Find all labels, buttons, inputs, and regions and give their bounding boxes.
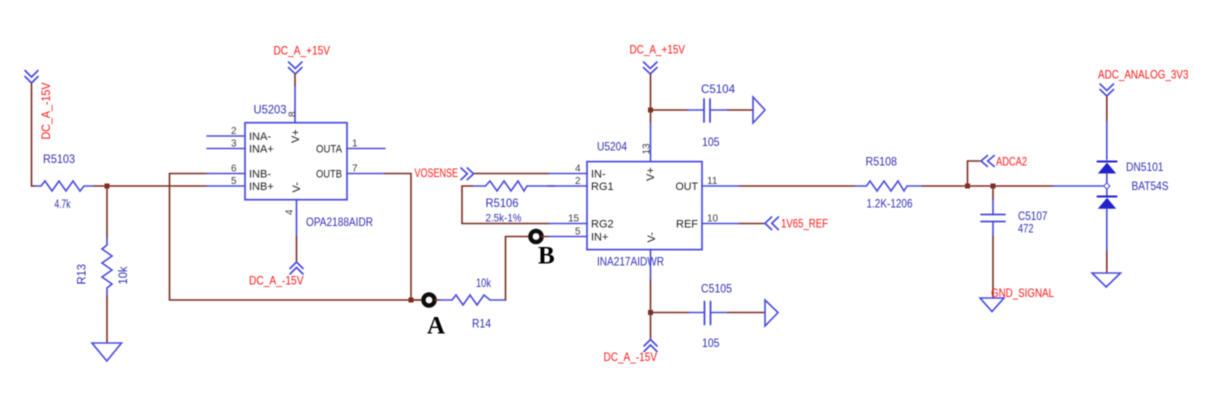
svg-text:INB-: INB- <box>249 169 271 181</box>
svg-text:5: 5 <box>231 176 237 187</box>
svg-text:472: 472 <box>1018 224 1034 236</box>
svg-text:V-: V- <box>291 182 303 193</box>
wire R14 up to node B <box>506 237 531 301</box>
svg-text:U5204: U5204 <box>597 142 628 154</box>
resistor R5103 <box>35 154 94 211</box>
power port DC_A_-15V below U5204 <box>604 340 658 365</box>
power port ADC_ANALOG_3V3 <box>1098 68 1189 97</box>
svg-text:4.7k: 4.7k <box>55 199 71 211</box>
wire C5105 to ground <box>728 312 765 314</box>
svg-text:4: 4 <box>285 209 296 215</box>
svg-text:V-: V- <box>646 232 658 243</box>
svg-text:3: 3 <box>231 139 237 150</box>
svg-text:ADC_ANALOG_3V3: ADC_ANALOG_3V3 <box>1098 68 1189 82</box>
svg-text:B: B <box>538 243 555 270</box>
svg-text:IN+: IN+ <box>591 232 608 244</box>
svg-text:REF: REF <box>676 219 698 231</box>
svg-text:INB+: INB+ <box>249 181 274 193</box>
resistor R14 <box>436 278 506 331</box>
pin 10 lead REF <box>702 223 740 225</box>
svg-text:DN5101: DN5101 <box>1126 162 1164 174</box>
svg-text:ADCA2: ADCA2 <box>996 155 1027 169</box>
wire bottom diode to ground <box>1106 209 1108 252</box>
svg-text:RG2: RG2 <box>591 219 614 231</box>
wire pin14 down to junction and -15V <box>650 280 652 339</box>
power port DC_A_+15V above U5203 <box>274 44 331 75</box>
svg-text:V+: V+ <box>290 129 302 143</box>
svg-text:RG1: RG1 <box>591 181 614 193</box>
svg-text:R5108: R5108 <box>866 157 898 169</box>
svg-text:OUTB: OUTB <box>316 169 342 181</box>
svg-text:7: 7 <box>352 164 358 175</box>
svg-text:R14: R14 <box>472 319 492 331</box>
svg-text:2: 2 <box>575 176 581 187</box>
svg-text:V+: V+ <box>645 167 657 181</box>
svg-text:10: 10 <box>707 214 719 225</box>
diode DN5101 bottom (cathode up) <box>1098 181 1169 209</box>
ground (rotated) right of C5104 <box>753 97 765 123</box>
wire +15V down to junction and pin 13 <box>650 74 652 122</box>
pin 5 lead INB+ <box>207 185 245 187</box>
wire R5108 to diode node <box>923 185 1054 187</box>
svg-text:1: 1 <box>352 139 358 150</box>
wire C5104 to ground <box>728 109 753 111</box>
pin 2 lead RG1 <box>549 185 587 187</box>
wire junction down to R13 <box>106 186 108 238</box>
node A (connector ring) <box>423 294 445 339</box>
svg-text:U5203: U5203 <box>254 105 287 117</box>
svg-text:R5103: R5103 <box>43 154 75 166</box>
junction at feedback / node A row <box>409 298 414 303</box>
pin 4 lead IN- <box>549 173 587 175</box>
node diamond on diode column <box>1104 183 1110 189</box>
node B (connector ring) <box>530 231 554 270</box>
ground under R13 <box>92 343 122 361</box>
svg-text:1.2K-1206: 1.2K-1206 <box>867 199 913 211</box>
wire from -15V port down to R5103 <box>32 83 36 186</box>
svg-text:11: 11 <box>707 176 718 187</box>
svg-text:DC_A_+15V: DC_A_+15V <box>274 44 331 58</box>
wire junction to C5105 <box>651 312 690 314</box>
ground under DN5101 <box>1092 273 1121 287</box>
instrumentation amp U5204 <box>549 122 740 280</box>
svg-text:R5106: R5106 <box>486 198 519 210</box>
wire REF to 1V65_REF port <box>740 223 765 225</box>
svg-text:5: 5 <box>575 227 581 238</box>
port VOSENSE <box>415 166 474 180</box>
wire pin4 down to -15V port <box>296 237 298 261</box>
svg-text:10k: 10k <box>476 278 491 290</box>
pin 1 stub OUTA <box>347 148 385 150</box>
wire junction to C5104 <box>651 109 689 111</box>
svg-text:INA+: INA+ <box>249 144 274 156</box>
junction at ADCA2 tap <box>965 184 970 189</box>
svg-text:DC_A_-15V: DC_A_-15V <box>604 350 658 364</box>
wire INB- loop : pin6 left, down and right to node A <box>170 174 422 301</box>
wire 3V3 down to diode D1 <box>1106 96 1108 122</box>
pin 2 stub INA- <box>207 135 245 137</box>
junction at C5107 tap <box>991 184 996 189</box>
wire junction down to C5107 <box>992 186 994 200</box>
junction at C5104 tap <box>648 108 653 113</box>
wire R13 to ground <box>106 296 108 343</box>
capacitor C5104 <box>688 84 736 149</box>
ground (rotated) right of C5105 <box>765 300 778 326</box>
pin 13 lead V+ (top) <box>650 122 652 162</box>
pin 14 lead V- (bottom) <box>650 250 652 280</box>
svg-text:6: 6 <box>231 164 237 175</box>
pin 8 lead V+ (top) <box>294 86 296 123</box>
svg-text:BAT54S: BAT54S <box>1132 181 1169 193</box>
wire OUT to R5108 <box>740 185 855 187</box>
svg-text:A: A <box>427 313 445 340</box>
wire R5103 to junction <box>94 185 107 187</box>
op-amp U5203 <box>207 86 385 237</box>
svg-text:1V65_REF: 1V65_REF <box>781 217 828 231</box>
ground GND_SIGNAL <box>980 286 1054 312</box>
wire between diodes with node diamond <box>1106 174 1108 197</box>
svg-text:105: 105 <box>702 137 720 149</box>
port 1V65_REF <box>765 217 828 231</box>
svg-text:GND_SIGNAL: GND_SIGNAL <box>991 286 1054 300</box>
wire RG1 corner down to RG2 <box>462 186 549 224</box>
svg-text:DC_A_-15V: DC_A_-15V <box>249 274 304 288</box>
svg-text:OUT: OUT <box>676 181 699 193</box>
resistor R13 <box>77 238 131 296</box>
pin 15 lead RG2 <box>549 223 587 225</box>
power port DC_A_-15V (top left) <box>25 71 53 140</box>
capacitor C5105 <box>689 284 732 351</box>
svg-text:15: 15 <box>568 214 580 225</box>
power port DC_A_-15V below U5203 <box>249 262 304 288</box>
diode DN5101 top (cathode up) <box>1098 162 1164 175</box>
svg-text:C5104: C5104 <box>701 84 736 96</box>
power port DC_A_+15V above U5204 <box>630 43 686 75</box>
svg-text:DC_A_-15V: DC_A_-15V <box>39 83 53 140</box>
svg-text:8: 8 <box>288 111 299 117</box>
svg-text:OUTA: OUTA <box>316 144 343 156</box>
wire C5107 down to ground <box>992 237 994 299</box>
svg-text:13: 13 <box>642 143 653 155</box>
junction at R5103 / R13 / INB+ <box>105 184 110 189</box>
wire INB+ : junction to U5203 pin 5 <box>107 185 207 187</box>
svg-text:INA217AIDWR: INA217AIDWR <box>597 257 664 269</box>
svg-text:IN-: IN- <box>591 169 606 181</box>
svg-text:C5105: C5105 <box>701 284 732 296</box>
pin 4 lead V- (bottom) <box>296 200 298 237</box>
pin 6 lead INB- <box>207 173 245 175</box>
pin 7 lead OUTB <box>347 173 385 175</box>
pin 5 lead IN+ <box>549 236 587 238</box>
svg-text:2: 2 <box>231 126 237 137</box>
svg-text:R13: R13 <box>77 264 89 285</box>
svg-text:INA-: INA- <box>249 131 271 143</box>
resistor R5108 <box>855 157 923 211</box>
svg-text:OPA2188AIDR: OPA2188AIDR <box>306 217 373 229</box>
svg-text:4: 4 <box>575 164 581 175</box>
pin 3 stub INA+ <box>207 148 245 150</box>
svg-text:105: 105 <box>702 338 720 350</box>
wire node B to U5204 pin5 <box>542 236 549 238</box>
svg-text:10k: 10k <box>118 266 130 284</box>
resistor R5106 and gain loop RG1-RG2 <box>473 181 555 225</box>
wire +15V to U5203 pin 8 <box>294 74 296 86</box>
svg-text:DC_A_+15V: DC_A_+15V <box>630 43 686 57</box>
wire OUTB to feedback corner and down to node A <box>385 174 421 301</box>
wire VOSENSE to U5204 pin4 <box>475 173 550 175</box>
pin 11 lead OUT <box>702 185 740 187</box>
capacitor C5107 <box>981 200 1048 237</box>
svg-text:C5107: C5107 <box>1018 211 1048 223</box>
junction at C5105 tap <box>648 310 653 315</box>
port ADCA2 <box>968 155 1028 187</box>
svg-text:VOSENSE: VOSENSE <box>415 166 459 180</box>
